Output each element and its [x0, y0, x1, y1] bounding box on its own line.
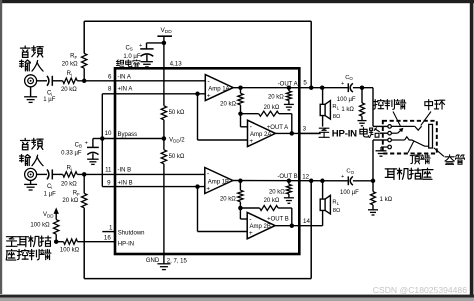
svg-text:0.33 µF: 0.33 µF [61, 150, 82, 156]
node pin12/loop junction [309, 179, 314, 184]
wire feedback loop A top rail [84, 20, 311, 22]
svg-text:20 kΩ: 20 kΩ [62, 61, 78, 67]
node A fb tee [238, 111, 243, 116]
leader tip [408, 141, 414, 153]
wire speaker B bottom to pin14 wire [322, 210, 324, 225]
wire divider to GND pin [163, 164, 165, 264]
ground below box [157, 263, 170, 265]
svg-text:11: 11 [105, 167, 112, 174]
svg-text:100 kΩ: 100 kΩ [60, 248, 80, 254]
svg-text:+OUT A: +OUT A [267, 125, 288, 131]
svg-text:+: + [249, 138, 253, 145]
wire CO-B right [353, 180, 373, 182]
wire bias drop to Amp2B+ [197, 187, 199, 232]
resistor 1k A [361, 88, 363, 103]
wire divider middle [163, 120, 165, 150]
svg-text:14: 14 [303, 218, 310, 225]
svg-text:VDD/2: VDD/2 [169, 137, 185, 143]
frame top bar [0, 0, 474, 3]
svg-text:HP-IN: HP-IN [118, 241, 134, 247]
svg-text:100 µF: 100 µF [340, 190, 359, 196]
wire +IN B internal [115, 186, 205, 188]
capacitor CS 1.0uF tantalum [140, 48, 153, 50]
svg-text:20 kΩ: 20 kΩ [62, 198, 78, 204]
pin 9 corner wire [102, 186, 115, 188]
svg-text:VDD: VDD [43, 212, 54, 218]
wire VDD down to pin 4,13 [163, 36, 165, 68]
node Amp1B out [238, 179, 243, 184]
svg-text:CO: CO [346, 169, 354, 175]
node VDD/CS junction [162, 41, 167, 46]
wire Ri-A to pin 6 [77, 80, 205, 82]
svg-text:8: 8 [108, 85, 112, 92]
speaker RL-A 8ohm [320, 104, 325, 115]
wire RF-A to input node [83, 68, 85, 81]
svg-text:+IN B: +IN B [118, 180, 133, 186]
svg-text:16: 16 [104, 234, 111, 241]
wire Amp2B output to pin 14 [275, 225, 323, 227]
node A input junction [82, 79, 87, 84]
wire RF-B to bottom loop [83, 208, 85, 279]
svg-text:CO: CO [345, 75, 353, 81]
svg-text:Amp 1B: Amp 1B [208, 179, 229, 185]
leader ring [421, 112, 431, 126]
wire fb node down to Amp2A minus [240, 114, 242, 127]
node Amp2B out [290, 223, 295, 228]
svg-text:+: + [206, 185, 210, 192]
svg-text:+: + [341, 174, 344, 180]
jack sleeve bar [429, 124, 433, 148]
svg-text:Ri: Ri [67, 166, 72, 172]
jack ring switch arm with arrow [391, 132, 397, 134]
svg-text:20 kΩ: 20 kΩ [268, 94, 284, 100]
svg-text:1 kΩ: 1 kΩ [341, 107, 354, 113]
pin 1 stub [102, 231, 115, 233]
svg-text:-OUT B: -OUT B [277, 174, 297, 180]
resistor 50k lower [161, 150, 166, 164]
resistor RF-B 20k [83, 174, 85, 193]
IC box U1 [115, 68, 299, 254]
svg-text:RF: RF [73, 190, 80, 196]
svg-text:GND: GND [146, 258, 160, 264]
label headphone jack (CJK) [385, 169, 396, 180]
node pin5/loop junction [309, 85, 314, 90]
label middle ring (CJK) [425, 100, 433, 110]
svg-text:Ci: Ci [47, 184, 52, 190]
svg-text:Amp 1A: Amp 1A [208, 86, 229, 92]
resistor 50k upper [161, 106, 166, 120]
RCA jack A [25, 75, 37, 87]
wire bypass pin [102, 138, 164, 140]
wire loop A left vertical upper [83, 21, 85, 53]
svg-text:20 kΩ: 20 kΩ [61, 181, 77, 187]
audio input label B (CJK) [20, 138, 29, 149]
node +INB tee [195, 184, 200, 189]
svg-text:12: 12 [302, 173, 309, 180]
frame right bar [470, 0, 474, 295]
wire control line down to jack [372, 88, 374, 127]
svg-text:RL: RL [332, 104, 339, 110]
node Amp1A out [238, 85, 243, 90]
wire speaker A bottom [322, 116, 324, 127]
svg-text:1 µF: 1 µF [44, 192, 56, 198]
capacitor CO-B 100uF [347, 176, 349, 185]
wire jack B to Ci [37, 173, 47, 175]
leader sleeve [434, 148, 444, 157]
node VDD/2 [162, 136, 167, 141]
op-amp Amp1B [205, 168, 233, 194]
resistor 100k horizontal [56, 241, 63, 243]
headphone jack dashed box [383, 121, 437, 154]
svg-text:4,13: 4,13 [170, 60, 183, 67]
op-amp Amp2B [247, 212, 275, 238]
svg-text:6: 6 [108, 74, 112, 81]
ground below jack A [30, 87, 32, 97]
jack ground contact [381, 146, 388, 148]
node shutdown junction [54, 239, 59, 244]
wire +IN A internal [115, 93, 205, 95]
VDD pullup arrow [55, 212, 57, 220]
svg-text:+IN A: +IN A [118, 86, 133, 92]
svg-text:Ri: Ri [67, 71, 72, 77]
wire bias drop to Amp2A+ [197, 94, 199, 140]
ground below jack B [30, 180, 32, 184]
wire CB branch [93, 138, 102, 140]
wire CS branch [147, 42, 164, 44]
label tantalum capacitor (CJK) [116, 60, 123, 66]
resistor 20k horizontal B [240, 207, 259, 209]
svg-text:+OUT B: +OUT B [267, 216, 289, 222]
capacitor CB 0.33uF [87, 146, 99, 148]
label control terminal (CJK) [374, 100, 384, 110]
wire Amp1A output to pin 5 [233, 87, 347, 89]
wire pin8 corner bus [102, 93, 115, 95]
frame left bar [0, 0, 2, 294]
svg-text:Amp 2A: Amp 2A [250, 132, 271, 138]
resistor 20k fb vertical A [240, 88, 242, 94]
svg-text:10: 10 [105, 130, 112, 137]
resistor 20k fb vertical B [239, 181, 241, 190]
resistor 20k horizontal A [241, 113, 259, 115]
resistor Ri-B 20k [63, 172, 77, 177]
svg-text:+: + [341, 81, 344, 87]
wire CO-A right [353, 87, 373, 89]
capacitor CO-A 100uF [347, 83, 349, 92]
wire Amp1B output to pin 12 [233, 180, 348, 182]
svg-text:Amp 2B: Amp 2B [250, 224, 271, 230]
jack control contact arm [391, 125, 414, 127]
wire into jack ring contact [380, 132, 388, 134]
resistor 1k B [372, 181, 374, 192]
svg-text:CS: CS [125, 45, 132, 51]
jack tip contact [391, 139, 404, 141]
svg-text:20 kΩ: 20 kΩ [264, 198, 280, 204]
node speaker A tap [320, 85, 325, 90]
ground below CS [141, 61, 153, 63]
wire bottom feedback loop rail [84, 278, 311, 280]
svg-text:8Ω: 8Ω [333, 114, 341, 120]
svg-text:50 kΩ: 50 kΩ [169, 110, 185, 116]
label to HP-IN circuit (CJK + latin) [319, 128, 329, 137]
speaker RL-B 8ohm [320, 199, 325, 210]
svg-text:1 µF: 1 µF [43, 97, 55, 103]
svg-text:20 kΩ: 20 kΩ [220, 196, 236, 202]
svg-text:8Ω: 8Ω [333, 208, 341, 214]
frame bottom bars [0, 295, 474, 298]
node +INA tee [195, 92, 200, 97]
wire loop B right vertical [310, 181, 312, 279]
svg-text:Bypass: Bypass [118, 132, 138, 138]
svg-text:RL: RL [332, 200, 339, 206]
svg-text:Shutdown: Shutdown [118, 231, 145, 237]
svg-text:20 kΩ: 20 kΩ [264, 105, 280, 111]
node bypass corner [100, 136, 105, 141]
node 1k B junction [371, 179, 376, 184]
wire jack tip line up [372, 140, 374, 181]
svg-text:20 kΩ: 20 kΩ [269, 190, 285, 196]
label tip (CJK) [410, 155, 420, 164]
svg-text:+: + [85, 141, 88, 147]
resistor 20k to gnd B [287, 179, 292, 184]
node Amp2A out [290, 131, 295, 136]
svg-text:100 µF: 100 µF [337, 97, 356, 103]
wire loop A right vertical [310, 21, 312, 88]
svg-text:1.0 µF: 1.0 µF [123, 54, 140, 60]
wire Amp2A output to pin 3 [275, 132, 320, 134]
jack contact circles [388, 125, 392, 129]
wire speaker B down [322, 181, 324, 199]
svg-text:CSDN @C18025394486: CSDN @C18025394486 [373, 285, 467, 295]
svg-text:-OUT A: -OUT A [278, 81, 298, 87]
resistor RF-A 20k [82, 53, 87, 68]
wire to pin 16 HP-IN [78, 241, 117, 243]
wire jack A to Ci [37, 80, 47, 82]
wire fb node down to Amp2B minus [239, 208, 241, 219]
svg-text:Ci: Ci [47, 91, 52, 97]
svg-text:-IN B: -IN B [118, 168, 132, 174]
svg-text:9: 9 [107, 179, 111, 186]
svg-text:100 kΩ: 100 kΩ [30, 223, 50, 229]
RCA jack B [25, 168, 37, 180]
wire pin 3 out [299, 132, 320, 134]
svg-text:+: + [249, 230, 253, 237]
svg-text:1 kΩ: 1 kΩ [380, 197, 393, 203]
svg-text:CB: CB [75, 142, 82, 148]
wire speaker A down [322, 88, 324, 105]
svg-text:1: 1 [109, 224, 113, 231]
wire Ci-A to Ri-A [52, 80, 62, 82]
to headphone jack control label (CJK) [6, 237, 17, 247]
leader control terminal [393, 112, 400, 127]
svg-text:3: 3 [303, 125, 307, 132]
ground below CB [87, 158, 99, 160]
capacitor Ci-B 1uF [47, 169, 49, 179]
resistor 100k vertical [54, 220, 59, 235]
svg-text:5: 5 [303, 79, 307, 86]
wire VDD internal to divider [163, 68, 165, 106]
node B input junction [82, 172, 87, 177]
capacitor Ci-A 1uF [47, 76, 49, 86]
resistor 20k to gnd A [287, 85, 292, 90]
svg-text:50 kΩ: 50 kΩ [169, 154, 185, 160]
svg-text:+: + [139, 43, 142, 49]
node 1k A junction [360, 85, 365, 90]
op-amp Amp1A [205, 75, 233, 101]
svg-text:HP-IN: HP-IN [332, 129, 357, 140]
node B fb tee [238, 206, 243, 211]
node speaker B tap [320, 179, 325, 184]
resistor Ri-A 20k [63, 78, 77, 83]
svg-text:-IN A: -IN A [118, 75, 131, 81]
svg-text:+: + [207, 92, 211, 99]
wire Ri-B to pin 11 [77, 173, 205, 175]
label sleeve (CJK) [445, 155, 454, 165]
svg-text:20 kΩ: 20 kΩ [220, 101, 236, 107]
svg-text:RF: RF [70, 53, 77, 59]
audio input label A (CJK) [20, 46, 29, 57]
svg-text:20 kΩ: 20 kΩ [61, 87, 77, 93]
wire Ci-B to Ri-B [52, 173, 62, 175]
op-amp Amp2A [248, 120, 276, 146]
